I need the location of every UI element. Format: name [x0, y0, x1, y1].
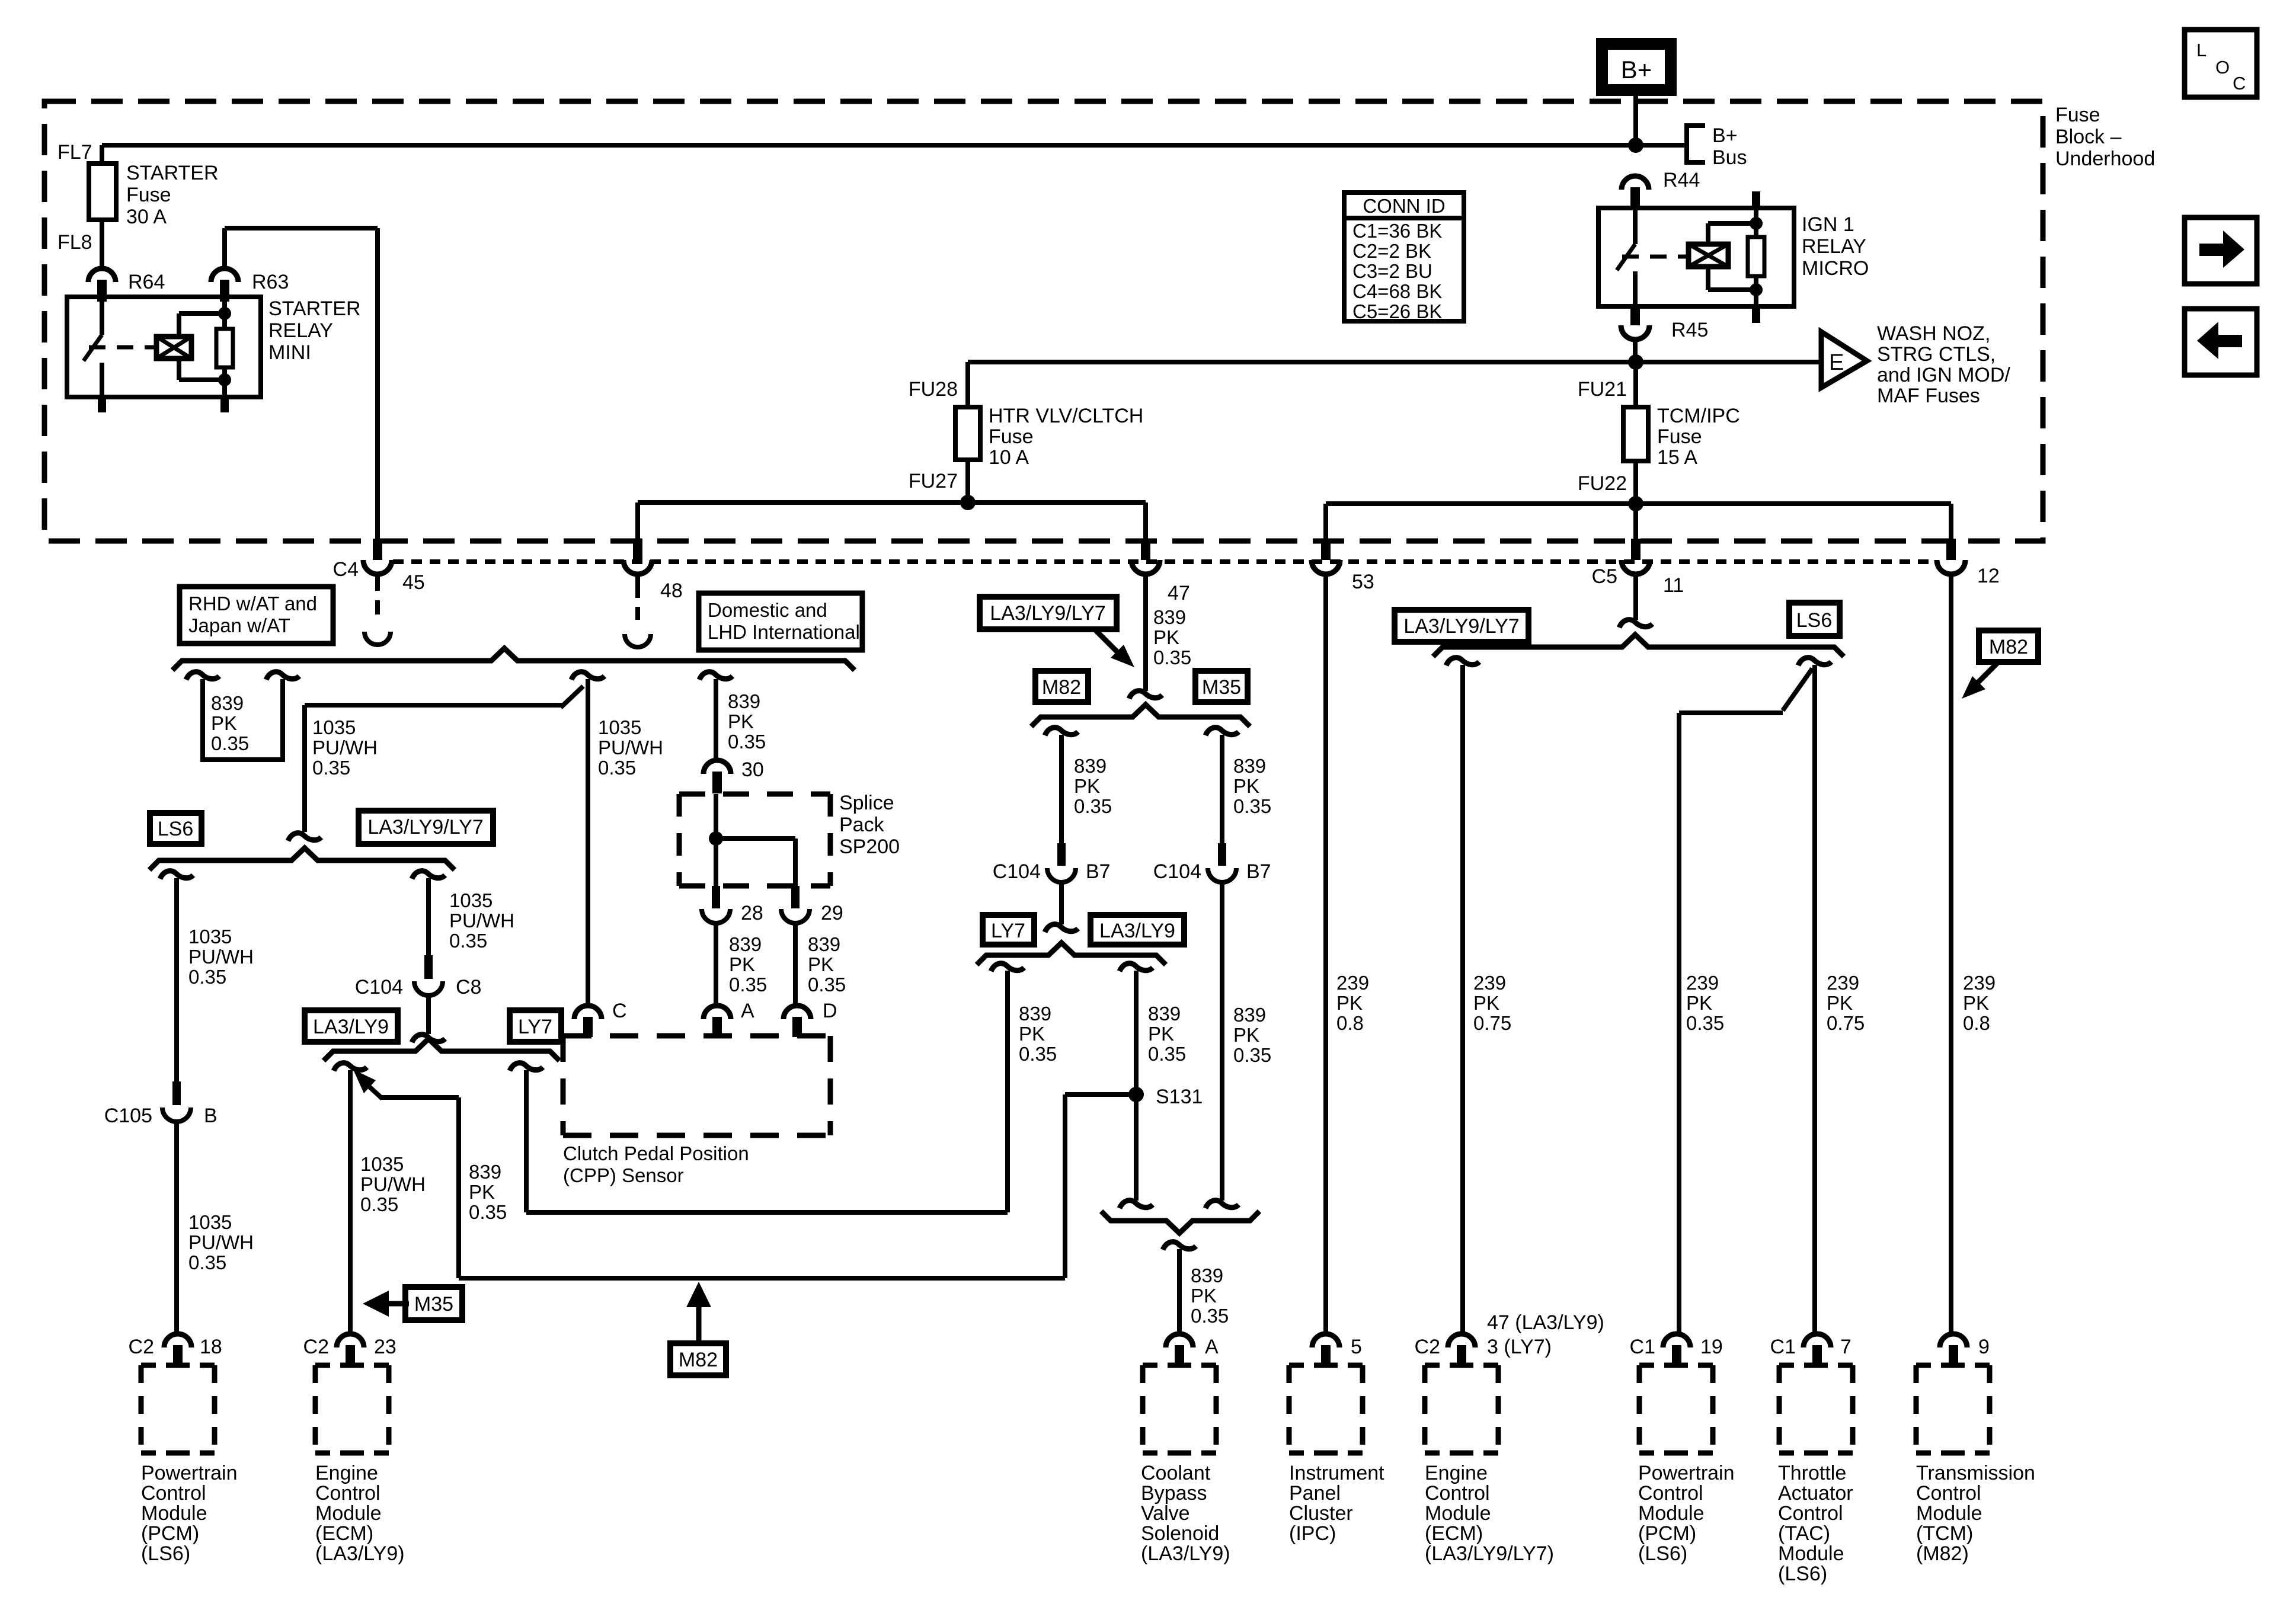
connector pin 29 [791, 886, 800, 908]
wire 839 PK jumper [186, 672, 219, 680]
svg-text:and IGN MOD/: and IGN MOD/ [1877, 364, 2010, 386]
svg-text:Splice: Splice [839, 792, 894, 814]
svg-text:FL7: FL7 [57, 141, 92, 164]
svg-text:PK: PK [1148, 1023, 1174, 1045]
option box Domestic and LHD International [699, 593, 862, 650]
wire 1035 PU/WH to PCM [174, 1122, 179, 1333]
svg-text:45: 45 [402, 571, 425, 594]
svg-text:0.35: 0.35 [211, 732, 249, 754]
arrow LA3/LY9/LY7 to wire 839 [1096, 630, 1120, 655]
svg-text:Actuator: Actuator [1778, 1482, 1853, 1505]
svg-text:839: 839 [1233, 1004, 1266, 1026]
svg-text:(LA3/LY9/LY7): (LA3/LY9/LY7) [1425, 1542, 1554, 1565]
inline connector C104 pin B7 (M35) [1218, 843, 1226, 866]
svg-text:PK: PK [1473, 992, 1499, 1014]
svg-text:7: 7 [1840, 1336, 1851, 1358]
svg-text:Module: Module [315, 1502, 382, 1525]
wire 839 PK pin28 to A [714, 923, 718, 1005]
svg-text:Control: Control [1778, 1502, 1843, 1525]
svg-text:839: 839 [1233, 755, 1266, 777]
svg-text:PU/WH: PU/WH [598, 737, 663, 758]
svg-text:PU/WH: PU/WH [188, 1231, 254, 1253]
wire 839 PK to splice [699, 672, 733, 680]
connector row C4/C5 dotted line [393, 559, 1936, 564]
starter relay resistor [222, 302, 227, 330]
svg-text:0.8: 0.8 [1963, 1012, 1990, 1034]
svg-text:Bypass: Bypass [1141, 1482, 1207, 1505]
svg-text:PK: PK [1827, 992, 1853, 1014]
connector C5 pin 11 [1631, 539, 1641, 560]
option box LY7 (mid) [983, 915, 1034, 945]
svg-text:1035: 1035 [449, 889, 493, 911]
svg-text:C105: C105 [104, 1105, 152, 1127]
connector pin 48 [633, 539, 642, 560]
connector C2 pin 18 PCM [164, 1334, 191, 1347]
B+ power feed box [1602, 44, 1671, 90]
ign relay switch-coil linkage [1622, 255, 1687, 259]
svg-text:PK: PK [1153, 626, 1179, 648]
svg-text:1035: 1035 [188, 926, 232, 948]
svg-text:Block –: Block – [2055, 126, 2122, 148]
wire R63 riser [222, 228, 227, 268]
svg-text:RELAY: RELAY [268, 319, 333, 342]
svg-text:Japan w/AT: Japan w/AT [188, 614, 290, 636]
svg-text:FL8: FL8 [57, 231, 92, 254]
svg-text:Solenoid: Solenoid [1141, 1522, 1219, 1545]
terminal R63 [211, 268, 238, 282]
svg-text:C2: C2 [1415, 1336, 1440, 1358]
svg-text:839: 839 [1074, 755, 1107, 777]
svg-text:B7: B7 [1086, 860, 1111, 883]
legend arrow right box [2185, 217, 2257, 284]
svg-text:(LA3/LY9): (LA3/LY9) [315, 1542, 405, 1565]
wire 1035 PU/WH to C105 [160, 871, 193, 879]
svg-text:RHD w/AT and: RHD w/AT and [188, 593, 317, 614]
svg-text:LA3/LY9/LY7: LA3/LY9/LY7 [990, 602, 1105, 625]
powertrain control module LS6 box [1639, 1363, 1713, 1368]
svg-text:0.35: 0.35 [1191, 1305, 1229, 1327]
svg-text:C4=68 BK: C4=68 BK [1352, 280, 1442, 302]
svg-text:A: A [741, 1000, 754, 1022]
svg-text:PK: PK [1963, 992, 1989, 1014]
svg-text:12: 12 [1977, 565, 2000, 587]
option box LA3/LY9/LY7 (conn 47) [980, 597, 1117, 629]
svg-text:LA3/LY9/LY7: LA3/LY9/LY7 [367, 816, 483, 838]
wire 839 PK to solenoid [1163, 1242, 1196, 1250]
svg-text:839: 839 [729, 933, 762, 955]
svg-text:839: 839 [1019, 1003, 1051, 1025]
svg-text:Control: Control [1425, 1482, 1490, 1505]
svg-text:M82: M82 [679, 1349, 718, 1371]
transmission control module box [1916, 1363, 1990, 1368]
svg-text:C104: C104 [355, 976, 403, 998]
fuse TCM/IPC 15A [1633, 362, 1638, 407]
svg-text:B+: B+ [1712, 124, 1738, 147]
svg-text:PU/WH: PU/WH [188, 946, 254, 968]
connector pin 53 [1321, 539, 1331, 560]
coolant bypass valve solenoid box [1143, 1363, 1216, 1368]
svg-text:(CPP) Sensor: (CPP) Sensor [563, 1164, 684, 1186]
svg-text:LY7: LY7 [991, 920, 1025, 942]
ign relay resistor [1748, 237, 1764, 276]
svg-text:FU27: FU27 [909, 470, 958, 492]
svg-text:239: 239 [1963, 972, 1996, 994]
wire 839 PK LA3/LY9 branch to S131 [1120, 964, 1153, 971]
svg-text:0.35: 0.35 [1233, 1044, 1271, 1066]
svg-text:1035: 1035 [188, 1211, 232, 1233]
svg-text:R44: R44 [1663, 169, 1700, 191]
svg-text:(LS6): (LS6) [1778, 1563, 1827, 1585]
junction FU22 [1628, 496, 1643, 511]
throttle actuator control module box [1779, 1363, 1853, 1368]
svg-text:0.35: 0.35 [449, 930, 487, 952]
wire 839 PK from conn 47 [1143, 574, 1148, 691]
option box LS6 (conn 11) [1789, 603, 1840, 636]
splice internal wires [714, 794, 718, 886]
svg-text:LS6: LS6 [1796, 609, 1833, 632]
terminal R45 [1630, 306, 1640, 325]
wire 1035 PU/WH to ECM [334, 1063, 367, 1071]
wire 839 PK pin29 to D [793, 923, 798, 1005]
svg-text:239: 239 [1336, 972, 1369, 994]
svg-text:WASH NOZ,: WASH NOZ, [1877, 322, 1990, 345]
wire 239 PK 0.75 to ECM [1446, 658, 1479, 665]
svg-text:0.75: 0.75 [1827, 1012, 1865, 1034]
wire group brace RHD/Domestic [172, 648, 855, 670]
svg-text:PK: PK [1233, 775, 1259, 797]
svg-text:(TAC): (TAC) [1778, 1522, 1830, 1545]
junction coil top [218, 307, 231, 320]
connector pin A solenoid [1166, 1334, 1193, 1347]
svg-text:Clutch Pedal Position: Clutch Pedal Position [563, 1142, 749, 1164]
svg-text:Control: Control [141, 1482, 206, 1505]
svg-text:0.35: 0.35 [1153, 646, 1191, 668]
svg-text:(M82): (M82) [1916, 1542, 1969, 1565]
svg-text:(LA3/LY9): (LA3/LY9) [1141, 1542, 1230, 1565]
junction S131 [1128, 1087, 1144, 1102]
wire 1035 PU/WH to C104 C8 [412, 871, 445, 879]
junction FU27 [960, 495, 976, 510]
svg-text:RELAY: RELAY [1802, 235, 1866, 258]
wire group brace C5-11 [1433, 635, 1844, 657]
svg-text:839: 839 [1148, 1003, 1181, 1025]
svg-text:R64: R64 [128, 271, 165, 293]
option box LS6 (left) [150, 813, 202, 844]
wire 839 PK M82 branch [1045, 728, 1078, 735]
off-page connector E [1821, 332, 1867, 388]
svg-text:C1: C1 [1770, 1336, 1796, 1358]
svg-text:Control: Control [1916, 1482, 1981, 1505]
svg-text:48: 48 [660, 580, 683, 602]
svg-text:Module: Module [1425, 1502, 1491, 1525]
svg-text:0.35: 0.35 [598, 757, 636, 779]
svg-text:LHD International: LHD International [708, 621, 860, 643]
svg-text:839: 839 [728, 690, 760, 712]
svg-text:Powertrain: Powertrain [1638, 1462, 1735, 1484]
svg-text:C: C [612, 1000, 627, 1022]
svg-text:LY7: LY7 [518, 1016, 552, 1038]
arrow 839 PK joins brace [353, 1070, 376, 1093]
svg-text:Valve: Valve [1141, 1502, 1190, 1525]
svg-text:(ECM): (ECM) [1425, 1522, 1483, 1545]
connector CPP pin D [784, 1006, 811, 1019]
svg-text:CONN ID: CONN ID [1363, 195, 1445, 217]
splice pack SP200 box [679, 792, 830, 797]
svg-text:Module: Module [141, 1502, 207, 1525]
svg-text:Module: Module [1778, 1542, 1844, 1565]
svg-text:E: E [1829, 350, 1844, 375]
svg-text:0.35: 0.35 [808, 974, 846, 996]
connector C2 pin 23 ECM [337, 1334, 364, 1347]
wire group gather brace S131/M35 [1101, 1211, 1259, 1233]
svg-text:1035: 1035 [598, 716, 641, 738]
svg-text:0.35: 0.35 [1148, 1043, 1186, 1065]
svg-text:C5=26 BK: C5=26 BK [1352, 300, 1442, 322]
svg-text:239: 239 [1473, 972, 1506, 994]
off-page box M82 (tcm wire) [1979, 630, 2038, 662]
svg-text:Cluster: Cluster [1289, 1502, 1353, 1525]
CONN ID table [1344, 193, 1464, 321]
svg-text:0.35: 0.35 [1686, 1012, 1724, 1034]
svg-text:Powertrain: Powertrain [141, 1462, 238, 1484]
svg-text:Fuse: Fuse [989, 425, 1034, 448]
option box LA3/LY9/LY7 (conn 11) [1395, 610, 1528, 642]
starter relay coil [156, 337, 191, 359]
connector pin 12 [1946, 539, 1956, 560]
svg-text:0.35: 0.35 [1074, 795, 1112, 817]
legend arrow left box [2185, 309, 2257, 375]
svg-text:LS6: LS6 [158, 818, 194, 840]
option box LA3/LY9/LY7 (left) [359, 811, 493, 844]
svg-text:C5: C5 [1592, 565, 1617, 588]
off-page box M35 (conn47) [1195, 671, 1248, 702]
svg-text:MAF Fuses: MAF Fuses [1877, 385, 1980, 407]
svg-text:C1=36 BK: C1=36 BK [1352, 220, 1442, 242]
svg-text:53: 53 [1352, 571, 1374, 593]
svg-text:C1: C1 [1630, 1336, 1655, 1358]
svg-text:(LS6): (LS6) [141, 1542, 190, 1565]
svg-text:839: 839 [1153, 606, 1186, 628]
svg-text:30: 30 [741, 758, 764, 781]
option box LY7 (left) [510, 1010, 561, 1042]
svg-text:Bus: Bus [1712, 146, 1747, 169]
svg-text:28: 28 [741, 902, 763, 924]
svg-text:PK: PK [808, 953, 834, 975]
wire conn11 stub [1633, 574, 1638, 620]
svg-text:0.35: 0.35 [188, 966, 226, 988]
engine control module (LA3/LY9) box [315, 1363, 389, 1368]
svg-text:15 A: 15 A [1657, 446, 1697, 469]
svg-text:M35: M35 [1202, 676, 1241, 699]
ign relay pins [1752, 191, 1760, 208]
wire 239 PK 0.8 conn12 to TCM [1949, 574, 1953, 1333]
svg-text:FU28: FU28 [909, 378, 958, 401]
legend LOC box [2185, 30, 2257, 97]
svg-text:0.35: 0.35 [188, 1251, 226, 1273]
starter relay bottom pins [98, 397, 106, 412]
svg-text:C2=2 BK: C2=2 BK [1352, 240, 1431, 262]
svg-text:0.35: 0.35 [360, 1193, 398, 1215]
wire 839 PK M35 tail [1220, 882, 1224, 1201]
svg-text:IGN 1: IGN 1 [1802, 213, 1854, 236]
svg-text:1035: 1035 [312, 716, 356, 738]
fuse HTR VLV/CLTCH 10A [965, 362, 970, 407]
connector pin 28 [712, 886, 720, 908]
connector CPP pin A [703, 1006, 731, 1019]
junction R45/E [1628, 354, 1643, 370]
svg-text:29: 29 [821, 902, 843, 924]
ign relay coil [1689, 244, 1728, 267]
svg-text:Module: Module [1916, 1502, 1982, 1525]
connector pin 47 [1141, 539, 1150, 560]
svg-text:18: 18 [200, 1336, 222, 1358]
svg-text:C8: C8 [456, 976, 481, 998]
svg-text:3 (LY7): 3 (LY7) [1487, 1336, 1552, 1358]
junction B+ / R44 [1628, 137, 1643, 153]
wire 839 PK LY7 branch [991, 964, 1024, 971]
svg-text:HTR VLV/CLTCH: HTR VLV/CLTCH [989, 405, 1143, 427]
svg-text:Instrument: Instrument [1289, 1462, 1384, 1484]
svg-text:C2: C2 [303, 1336, 329, 1358]
wire group brace LA3LY9/LY7 [324, 1039, 559, 1061]
powertrain control module (LS6) box [141, 1363, 215, 1368]
svg-text:C104: C104 [1153, 860, 1201, 883]
svg-text:839: 839 [469, 1161, 501, 1183]
svg-text:Control: Control [315, 1482, 380, 1505]
svg-text:Panel: Panel [1289, 1482, 1341, 1505]
svg-text:C2: C2 [129, 1336, 154, 1358]
svg-text:O: O [2215, 57, 2230, 78]
junction coil bottom [218, 373, 231, 386]
wire FL7 bus [102, 143, 1685, 148]
svg-text:Control: Control [1638, 1482, 1703, 1505]
svg-text:Transmission: Transmission [1916, 1462, 2035, 1484]
option box LA3/LY9 (left) [305, 1010, 398, 1042]
fuse STARTER 30A FL7 [89, 164, 116, 220]
engine control module (LA3/LY9/LY7) box [1425, 1363, 1498, 1368]
svg-text:R45: R45 [1671, 319, 1708, 341]
wire B+ to FL7 bus [1633, 90, 1638, 145]
svg-text:C3=2 BU: C3=2 BU [1352, 260, 1432, 282]
svg-text:PK: PK [1336, 992, 1363, 1014]
wire 239 PK 0.8 conn53 to IPC [1323, 574, 1328, 1333]
wire E feed [968, 360, 1821, 364]
svg-text:PK: PK [211, 712, 237, 734]
svg-text:M35: M35 [414, 1293, 453, 1315]
connector splice pin 30 [703, 760, 731, 774]
svg-text:TCM/IPC: TCM/IPC [1657, 405, 1740, 427]
wire 1035 PU/WH to LS6 brace [571, 672, 605, 680]
svg-text:FU21: FU21 [1578, 378, 1627, 401]
off-page box M82 (S131 wire) [670, 1343, 726, 1375]
ign relay switch [1633, 209, 1638, 244]
svg-text:L: L [2196, 40, 2207, 60]
svg-text:STARTER: STARTER [126, 162, 219, 184]
svg-text:10 A: 10 A [989, 446, 1029, 469]
svg-text:Fuse: Fuse [1657, 425, 1702, 448]
svg-text:239: 239 [1827, 972, 1859, 994]
svg-text:LA3/LY9: LA3/LY9 [313, 1016, 389, 1038]
B+ Bus tap [1687, 126, 1705, 162]
connector CPP pin C [574, 1006, 602, 1019]
wire from C104 B7 down [1059, 882, 1064, 924]
svg-text:Fuse: Fuse [2055, 104, 2100, 126]
svg-text:MICRO: MICRO [1802, 257, 1869, 280]
svg-text:(TCM): (TCM) [1916, 1522, 1973, 1545]
svg-text:PK: PK [1019, 1023, 1045, 1045]
svg-text:Fuse: Fuse [126, 184, 171, 206]
svg-text:11: 11 [1663, 574, 1684, 597]
svg-text:9: 9 [1978, 1336, 1990, 1358]
svg-text:PK: PK [1686, 992, 1712, 1014]
svg-text:(PCM): (PCM) [1638, 1522, 1696, 1545]
svg-text:PK: PK [729, 953, 755, 975]
connector pin 9 TCM [1940, 1334, 1967, 1347]
wire to LA3/LY9-LY7 brace [426, 996, 431, 1034]
svg-text:Coolant: Coolant [1141, 1462, 1211, 1484]
connector pin 5 IPC [1312, 1334, 1339, 1347]
svg-text:A: A [1205, 1336, 1219, 1358]
terminal R44 [1622, 176, 1649, 190]
svg-text:(LS6): (LS6) [1638, 1542, 1687, 1565]
svg-text:0.35: 0.35 [728, 731, 766, 753]
svg-text:STARTER: STARTER [268, 297, 361, 320]
connector C1 pin 7 TAC [1803, 1334, 1831, 1347]
svg-text:Pack: Pack [839, 814, 885, 836]
svg-text:PU/WH: PU/WH [360, 1173, 426, 1195]
svg-text:0.8: 0.8 [1336, 1012, 1364, 1034]
svg-text:(ECM): (ECM) [315, 1522, 373, 1545]
svg-text:(PCM): (PCM) [141, 1522, 199, 1545]
svg-text:PK: PK [728, 710, 754, 732]
wire 839 PK LY7 cross link [510, 1063, 543, 1071]
svg-text:(IPC): (IPC) [1289, 1522, 1336, 1545]
svg-text:C: C [2233, 73, 2246, 94]
svg-text:C104: C104 [993, 860, 1041, 883]
svg-text:5: 5 [1351, 1336, 1362, 1358]
svg-text:STRG CTLS,: STRG CTLS, [1877, 343, 1996, 366]
svg-text:Domestic and: Domestic and [708, 599, 827, 621]
option box LA3/LY9 (mid) [1091, 915, 1184, 945]
off-page box M82 (conn47) [1035, 671, 1088, 702]
svg-text:Engine: Engine [1425, 1462, 1488, 1484]
svg-text:R63: R63 [252, 271, 289, 293]
wire group brace LY7/LA3LY9 [977, 943, 1166, 965]
inline connector C105 pin B [172, 1081, 181, 1105]
svg-text:SP200: SP200 [839, 836, 900, 858]
svg-text:B7: B7 [1246, 860, 1271, 883]
svg-text:C4: C4 [333, 558, 359, 581]
wire group brace LS6/LA3LY9LY7 [149, 848, 455, 870]
svg-text:LA3/LY9: LA3/LY9 [1099, 920, 1175, 942]
svg-text:FU22: FU22 [1578, 472, 1627, 495]
svg-text:MINI: MINI [268, 341, 311, 364]
wire 1035 PU/WH to CPP C [586, 679, 590, 1005]
svg-text:839: 839 [808, 933, 840, 955]
wire 839 PK M35 branch [1205, 728, 1239, 735]
svg-text:B+: B+ [1621, 56, 1652, 84]
svg-text:PK: PK [1191, 1285, 1217, 1307]
inline connector C104 pin B7 (M82) [1057, 843, 1066, 866]
svg-text:PU/WH: PU/WH [449, 910, 514, 932]
svg-text:30 A: 30 A [126, 206, 167, 228]
svg-text:PU/WH: PU/WH [312, 737, 378, 758]
wire S131 tail curl [1120, 1201, 1153, 1208]
wire conn45 drop [375, 228, 380, 540]
svg-text:M82: M82 [1042, 676, 1081, 699]
connector C1 pin 19 PCM [1663, 1334, 1690, 1347]
off-page arrow M82 (S131 wire) [686, 1282, 711, 1307]
